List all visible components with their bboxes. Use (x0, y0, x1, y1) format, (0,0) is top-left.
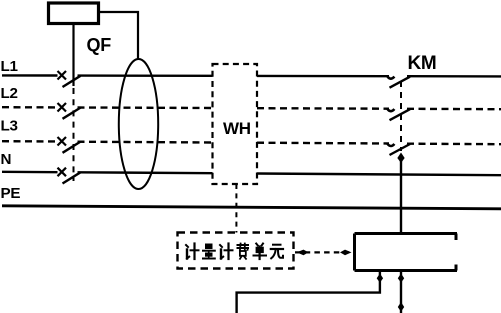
wire L3 right segment (dashed) (407, 142, 501, 145)
KM mechanical linkage (dashed) (400, 81, 402, 151)
wire L1 right segment (407, 75, 501, 78)
glyph 元 (271, 245, 283, 259)
wire control box to lower-left output (237, 271, 380, 313)
contactor KM pole L3 fixed contact arc (387, 144, 394, 147)
breaker QF pole N blade (63, 172, 81, 183)
contactor KM pole L1 fixed contact arc (387, 76, 394, 79)
wire L1 WH to KM (257, 75, 389, 78)
wire L3 left segment (dashed) (2, 140, 58, 143)
glyph 单 (254, 244, 267, 260)
label QF (87, 35, 112, 55)
label 计量计费单元 (metering and billing unit) (186, 244, 283, 260)
wire L2 right segment (dashed) (407, 108, 501, 111)
label L2 (1, 85, 18, 102)
KM actuator arrow (398, 153, 405, 163)
wire L3 to WH (dashed) (78, 140, 213, 143)
label N (1, 151, 12, 168)
svg-text:PE: PE (1, 185, 21, 202)
wire control unit to KM actuator (400, 161, 402, 234)
wire L1 left segment (2, 74, 58, 76)
contactor KM pole L1 blade (390, 77, 411, 88)
glyph 量 (203, 244, 215, 259)
breaker QF pole L1 cross mark (58, 71, 67, 80)
glyph 费 (238, 244, 249, 259)
breaker QF pole L2 blade (63, 108, 81, 119)
breaker QF pole L3 cross mark (58, 137, 67, 146)
label PE (1, 185, 21, 202)
wire QF box bottom to L1 pole (72, 24, 74, 87)
signal wire WH to metering unit (dashed) (235, 184, 237, 233)
wire L1 to WH (78, 74, 213, 77)
comm arrowhead right (340, 250, 352, 256)
wire N left segment (2, 171, 58, 174)
label L1 (1, 58, 19, 75)
wire L3 WH to KM (dashed) (257, 141, 389, 144)
svg-text:N: N (1, 151, 12, 168)
glyph 计 (second) (220, 244, 233, 260)
QF mechanical linkage (dashed) (73, 88, 75, 181)
svg-text:L1: L1 (1, 58, 19, 75)
breaker QF pole L3 blade (63, 142, 81, 153)
breaker QF pole L1 blade (63, 76, 81, 87)
svg-text:L2: L2 (1, 85, 18, 102)
current transformer ring (residual CT) (119, 59, 158, 189)
glyph 计 (186, 244, 199, 260)
contactor KM pole L2 fixed contact arc (387, 109, 394, 112)
breaker QF pole L2 cross mark (58, 103, 67, 112)
contactor KM pole L2 blade (390, 109, 411, 120)
svg-text:KM: KM (408, 53, 437, 74)
arrow on lower wire at x=401 (398, 302, 404, 312)
breaker QF pole N cross mark (58, 168, 67, 177)
arrow into box at x=401 (398, 274, 404, 283)
comm arrowhead left (297, 250, 309, 256)
wire N right of WH (257, 174, 501, 176)
label KM (408, 53, 437, 74)
wire N to WH (78, 171, 213, 174)
watt-hour meter WH (dashed box) (213, 64, 258, 184)
wire control box bottom output (x=401) (400, 271, 402, 313)
svg-text:L3: L3 (1, 118, 18, 135)
wire L2 WH to KM (dashed) (257, 107, 389, 110)
wire QF box to CT ring (99, 12, 139, 60)
breaker QF trip-unit box (49, 3, 99, 24)
svg-text:QF: QF (87, 35, 112, 55)
svg-text:WH: WH (223, 119, 251, 138)
label L3 (1, 118, 18, 135)
metering-billing unit box (dashed) (178, 233, 294, 269)
load control unit box (355, 234, 458, 271)
contactor KM pole L3 blade (390, 144, 411, 155)
communication link arrows (dashed, double-headed) (295, 251, 353, 253)
wire PE full width (2, 206, 501, 209)
arrow into box at x=380 (377, 274, 383, 283)
label WH (223, 119, 251, 138)
wire L2 left segment (dashed) (2, 106, 58, 109)
wire L2 to WH (dashed) (78, 106, 213, 109)
